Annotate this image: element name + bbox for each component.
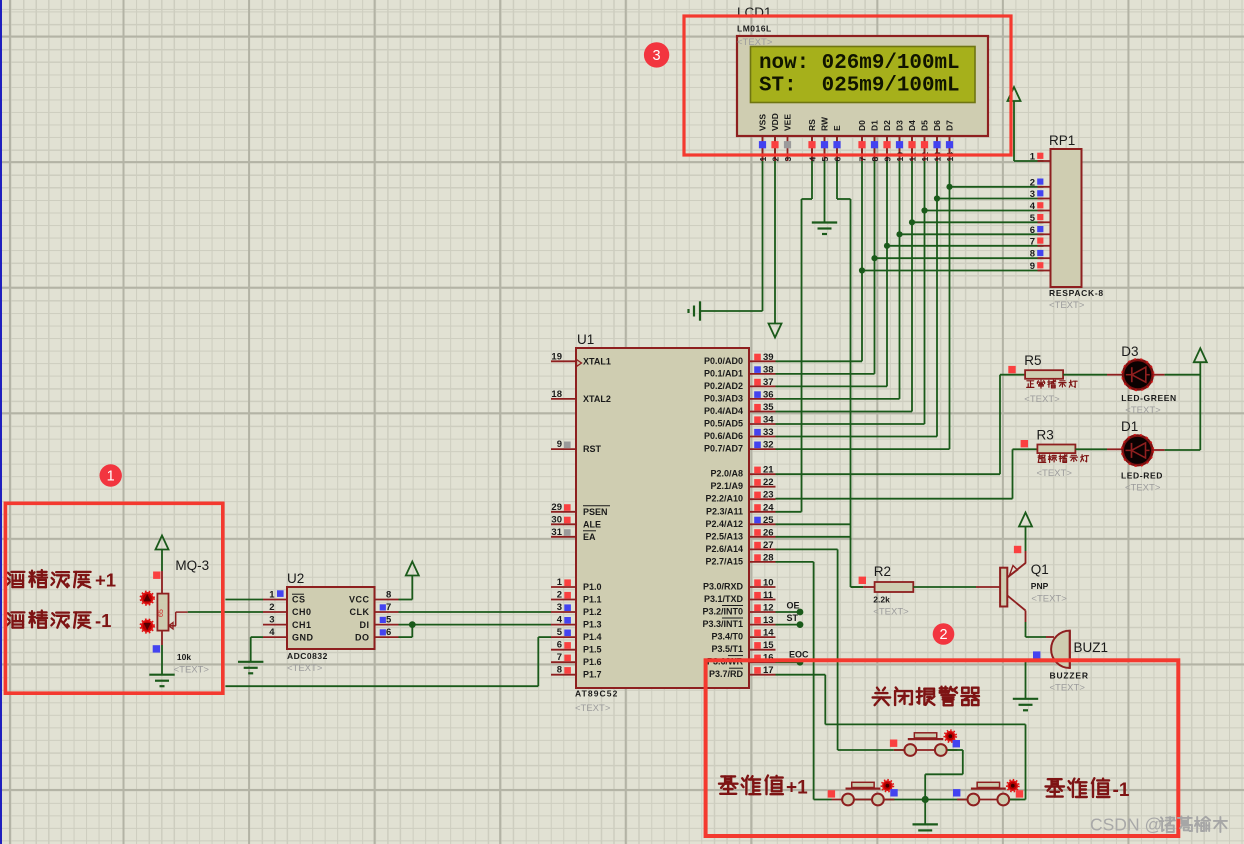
svg-text:LED-RED: LED-RED [1121,471,1163,481]
svg-text:P3.0/RXD: P3.0/RXD [703,582,744,592]
svg-text:RS: RS [807,119,817,131]
svg-text:P2.0/A8: P2.0/A8 [710,469,743,479]
svg-text:5: 5 [1030,213,1036,224]
svg-text:6: 6 [557,640,562,651]
svg-text:<TEXT>: <TEXT> [1049,300,1085,311]
svg-text:7: 7 [858,157,868,162]
svg-text:P1.0: P1.0 [583,582,602,592]
svg-text:24: 24 [763,502,774,513]
svg-text:P3.4/T0: P3.4/T0 [711,632,743,642]
svg-text:9: 9 [1030,261,1035,272]
svg-text:MQ-3: MQ-3 [175,558,209,573]
svg-text:22: 22 [763,477,774,488]
svg-text:U2: U2 [287,571,304,586]
svg-text:P0.4/AD4: P0.4/AD4 [704,406,743,416]
svg-text:39: 39 [763,352,774,363]
svg-text:ST: 025m9/100mL: ST: 025m9/100mL [759,75,960,98]
svg-text:<TEXT>: <TEXT> [1037,468,1073,479]
svg-text:P3.1/TXD: P3.1/TXD [704,594,744,604]
svg-text:E: E [832,125,842,131]
svg-text:36: 36 [763,389,774,400]
svg-text:ADC0832: ADC0832 [287,651,328,661]
svg-text:VDD: VDD [770,113,780,131]
svg-text:23: 23 [763,490,774,501]
svg-text:7: 7 [557,652,562,663]
svg-text:4: 4 [1030,201,1036,212]
svg-text:1: 1 [758,157,768,162]
svg-text:7: 7 [386,602,391,613]
svg-text:10k: 10k [177,652,191,662]
svg-text:RP1: RP1 [1049,133,1075,148]
svg-text:DI: DI [360,620,370,630]
svg-text:<TEXT>: <TEXT> [737,37,773,48]
svg-text:30: 30 [551,514,562,525]
svg-text:32: 32 [763,440,774,451]
svg-text:P2.3/A11: P2.3/A11 [706,506,743,516]
svg-text:LCD1: LCD1 [737,5,772,20]
svg-text:8: 8 [386,590,391,601]
svg-text:D1: D1 [1121,419,1138,434]
svg-text:35: 35 [763,402,774,413]
svg-text:11: 11 [763,590,774,601]
svg-text:Q1: Q1 [1031,562,1049,577]
svg-text:P3.5/T1: P3.5/T1 [711,644,743,654]
svg-text:5: 5 [820,157,830,162]
svg-text:VCC: VCC [349,595,370,605]
svg-text:+1: +1 [786,778,808,799]
svg-text:D3: D3 [1121,344,1138,359]
svg-text:D2: D2 [882,120,892,131]
svg-text:65: 65 [158,609,165,617]
svg-text:1: 1 [1030,152,1036,163]
svg-text:26: 26 [763,527,774,538]
svg-text:P0.1/AD1: P0.1/AD1 [704,368,743,378]
svg-text:1: 1 [557,577,563,588]
svg-text:RESPACK-8: RESPACK-8 [1049,288,1104,298]
svg-text:13: 13 [763,615,774,626]
svg-text:P0.6/AD6: P0.6/AD6 [704,431,743,441]
svg-text:RST: RST [583,444,602,454]
svg-text:4: 4 [808,157,818,162]
svg-text:2: 2 [939,627,947,643]
svg-text:2: 2 [269,602,274,613]
svg-text:D0: D0 [857,120,867,131]
svg-text:P1.7: P1.7 [583,670,602,680]
svg-text:3: 3 [653,48,661,64]
svg-text:3: 3 [557,602,562,613]
svg-text:VSS: VSS [758,114,768,131]
svg-text:CH1: CH1 [292,620,312,630]
svg-text:P0.0/AD0: P0.0/AD0 [704,356,743,366]
svg-text:CSDN @: CSDN @ [1090,815,1162,835]
svg-text:P0.3/AD3: P0.3/AD3 [704,393,743,403]
svg-text:<TEXT>: <TEXT> [1024,394,1060,405]
svg-text:XTAL1: XTAL1 [583,356,611,366]
svg-text:ST: ST [787,613,799,623]
svg-text:18: 18 [551,389,562,400]
svg-text:VEE: VEE [783,114,793,131]
svg-text:<TEXT>: <TEXT> [287,663,323,674]
svg-text:P3.3/INT1: P3.3/INT1 [702,619,743,629]
svg-text:D1: D1 [870,120,880,131]
svg-text:37: 37 [763,377,774,388]
svg-text:now: 026m9/100mL: now: 026m9/100mL [759,52,960,75]
svg-text:P1.2: P1.2 [583,607,602,617]
svg-text:<TEXT>: <TEXT> [1031,594,1067,605]
svg-text:12: 12 [920,152,930,162]
svg-text:3: 3 [269,615,274,626]
svg-text:R3: R3 [1037,427,1054,442]
svg-text:14: 14 [763,628,774,639]
svg-text:4: 4 [557,615,563,626]
svg-text:13: 13 [933,152,943,162]
svg-text:17: 17 [763,665,774,676]
svg-text:5: 5 [386,615,392,626]
svg-text:P3.2/INT0: P3.2/INT0 [702,607,743,617]
svg-text:2: 2 [1030,177,1035,188]
svg-text:19: 19 [551,351,562,362]
svg-text:P0.7/AD7: P0.7/AD7 [704,444,743,454]
svg-text:AT89C52: AT89C52 [575,689,618,699]
svg-text:P2.1/A9: P2.1/A9 [710,481,743,491]
svg-text:7: 7 [1030,236,1035,247]
svg-text:P2.4/A12: P2.4/A12 [705,519,743,529]
svg-text:4: 4 [269,627,275,638]
svg-text:CH0: CH0 [292,607,312,617]
svg-text:6: 6 [833,157,843,162]
svg-text:<TEXT>: <TEXT> [873,607,909,618]
svg-text:P1.4: P1.4 [583,632,602,642]
svg-text:14: 14 [945,152,955,162]
svg-text:25: 25 [763,515,774,526]
svg-text:<TEXT>: <TEXT> [1050,683,1086,694]
svg-text:P1.1: P1.1 [583,595,602,605]
svg-text:CLK: CLK [350,607,370,617]
svg-text:P0.2/AD2: P0.2/AD2 [704,381,743,391]
svg-text:PNP: PNP [1031,581,1049,591]
svg-text:1: 1 [107,469,115,485]
svg-text:R5: R5 [1024,353,1041,368]
svg-text:-1: -1 [95,610,111,631]
svg-text:XTAL2: XTAL2 [583,394,611,404]
svg-text:9: 9 [557,439,562,450]
svg-text:33: 33 [763,427,774,438]
svg-text:10: 10 [763,578,774,589]
svg-text:12: 12 [763,603,774,614]
svg-text:2.2k: 2.2k [873,595,890,605]
svg-text:LED-GREEN: LED-GREEN [1121,393,1176,403]
svg-text:2: 2 [557,590,562,601]
svg-text:PSEN: PSEN [583,507,608,517]
svg-text:DO: DO [355,632,370,642]
svg-text:31: 31 [551,527,562,538]
svg-text:D6: D6 [932,120,942,131]
svg-text:8: 8 [557,665,562,676]
svg-text:LM016L: LM016L [737,24,772,34]
svg-text:29: 29 [551,502,562,513]
svg-text:P2.7/A15: P2.7/A15 [705,556,743,566]
svg-text:6: 6 [1030,225,1035,236]
svg-text:P1.3: P1.3 [583,620,602,630]
svg-text:GND: GND [292,632,314,642]
svg-text:OE: OE [787,601,800,611]
svg-text:+1: +1 [95,570,116,591]
svg-text:10: 10 [895,152,905,162]
svg-text:R2: R2 [874,564,891,579]
svg-text:P1.5: P1.5 [583,645,602,655]
svg-text:8: 8 [1030,249,1035,260]
svg-text:P2.5/A13: P2.5/A13 [705,531,743,541]
svg-text:U1: U1 [577,332,594,347]
svg-text:ALE: ALE [583,519,601,529]
svg-text:RW: RW [820,116,830,131]
svg-text:D5: D5 [920,120,930,131]
svg-text:P1.6: P1.6 [583,657,602,667]
svg-text:1: 1 [269,590,275,601]
svg-text:2: 2 [771,157,781,162]
svg-text:3: 3 [783,157,793,162]
svg-text:<TEXT>: <TEXT> [1125,405,1161,416]
svg-text:27: 27 [763,540,774,551]
svg-text:3: 3 [1030,189,1035,200]
svg-text:-1: -1 [1113,780,1130,801]
svg-text:<TEXT>: <TEXT> [1125,483,1161,494]
svg-text:D7: D7 [945,120,955,131]
svg-text:<TEXT>: <TEXT> [575,703,611,714]
svg-text:P2.2/A10: P2.2/A10 [705,494,743,504]
svg-text:BUZZER: BUZZER [1050,671,1089,681]
svg-text:P3.7/RD: P3.7/RD [709,669,744,679]
svg-text:34: 34 [763,415,774,426]
svg-text:38: 38 [763,364,774,375]
svg-text:P2.6/A14: P2.6/A14 [705,544,743,554]
svg-text:EA: EA [583,532,596,542]
svg-text:15: 15 [763,640,774,651]
svg-text:5: 5 [557,627,563,638]
svg-text:EOC: EOC [789,650,809,660]
svg-text:21: 21 [763,465,774,476]
svg-text:BUZ1: BUZ1 [1074,640,1109,655]
svg-text:8: 8 [870,157,880,162]
svg-text:D3: D3 [895,120,905,131]
svg-text:28: 28 [763,552,774,563]
svg-text:P0.5/AD5: P0.5/AD5 [704,419,743,429]
svg-text:CS: CS [292,595,306,605]
svg-text:D4: D4 [907,120,917,131]
svg-text:9: 9 [883,157,893,162]
svg-text:6: 6 [386,627,391,638]
svg-text:<TEXT>: <TEXT> [174,665,210,676]
